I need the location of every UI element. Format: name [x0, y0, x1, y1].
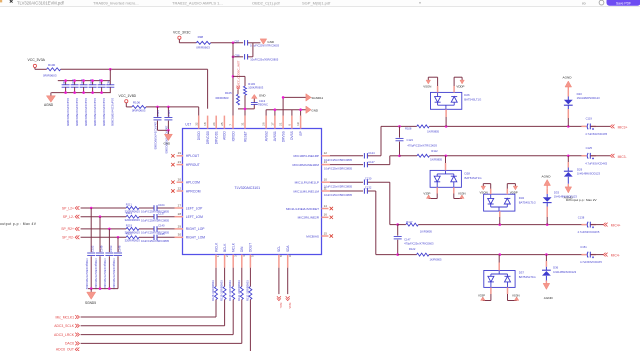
port SP_L2-	[63, 215, 80, 219]
capacitor C123	[396, 126, 438, 155]
capacitor C138	[578, 215, 600, 234]
svg-text:DVDD: DVDD	[197, 131, 201, 141]
svg-text:AGND: AGND	[44, 103, 54, 107]
pin 17 AVSS1 (top)	[271, 116, 278, 142]
svg-text:DRVSS: DRVSS	[281, 131, 285, 142]
designator U17	[185, 122, 191, 126]
svg-text:1N4148W/SOD123: 1N4148W/SOD123	[577, 172, 601, 176]
capacitor C124	[324, 151, 381, 162]
svg-text:19: 19	[296, 122, 300, 126]
svg-text:10uF/C25n/X5R/C0805: 10uF/C25n/X5R/C0805	[75, 98, 79, 126]
transistor D28 BAT54SLT1G	[430, 170, 481, 187]
svg-text:10uF/C25n/X5R/C0805: 10uF/C25n/X5R/C0805	[324, 158, 352, 162]
svg-text:10uF/C25n/X5R/C0805: 10uF/C25n/X5R/C0805	[111, 98, 115, 126]
svg-text:100K/R0603: 100K/R0603	[248, 86, 263, 90]
port Mic_MCLK1	[56, 315, 80, 319]
ground flag GND (C97/C98)	[260, 39, 275, 44]
svg-text:C140: C140	[158, 224, 165, 228]
junction EP	[299, 108, 302, 111]
svg-text:C137: C137	[158, 212, 165, 216]
svg-text:VSON: VSON	[480, 190, 488, 194]
capacitor C102 (AVDD decoupling)	[89, 78, 97, 126]
pin 6 DVSS (top)	[288, 116, 295, 140]
svg-text:VCC_3V3A: VCC_3V3A	[28, 58, 46, 62]
svg-text:AVSS2: AVSS2	[264, 131, 268, 141]
svg-text:C124: C124	[368, 151, 375, 155]
black note output p-p	[0, 222, 37, 226]
junction C147 top	[396, 223, 399, 226]
capacitor C149 (shunt)	[94, 217, 104, 290]
browser tab title 1	[17, 1, 65, 6]
svg-text:TRA632_AUDIO AMPLS 1...: TRA632_AUDIO AMPLS 1...	[172, 1, 223, 6]
wire D37 left pin	[483, 287, 491, 300]
wire C125 to port	[591, 155, 611, 157]
svg-text:R131 33R/R0603: R131 33R/R0603	[237, 280, 241, 301]
svg-text:C119: C119	[586, 117, 593, 121]
svg-text:R113: R113	[126, 211, 133, 215]
svg-text:BAT54SLT1G: BAT54SLT1G	[519, 275, 536, 279]
junction D29 tap	[567, 155, 570, 158]
svg-text:C127: C127	[368, 160, 375, 164]
svg-text:VS3N: VS3N	[458, 191, 466, 195]
op-amp U17 TLV320AIC3101 body	[183, 129, 322, 255]
wire RESET net	[238, 109, 254, 116]
svg-text:29: 29	[178, 224, 182, 228]
svg-text:10uF/C25n/X5R/C0805: 10uF/C25n/X5R/C0805	[324, 193, 352, 197]
junction D28 tap	[445, 155, 448, 158]
junction D36 tap	[545, 253, 548, 256]
svg-text:C104: C104	[158, 203, 165, 207]
wire C127 riser to MIC3- row	[390, 156, 400, 165]
svg-text:4.7uF/63V/CD4X5: 4.7uF/63V/CD4X5	[580, 260, 602, 264]
port MIC4+	[603, 223, 620, 228]
port ADC6_OUT	[56, 348, 79, 351]
capacitor C151	[580, 245, 602, 264]
svg-text:TRA609_Inverted micro...: TRA609_Inverted micro...	[93, 1, 139, 6]
svg-text:26: 26	[262, 122, 266, 126]
svg-text:R120: R120	[126, 232, 133, 236]
wire AVDD bank riser	[109, 69, 111, 80]
svg-text:MIC4+: MIC4+	[611, 224, 621, 228]
svg-text:BAT54SLT1G: BAT54SLT1G	[465, 176, 482, 180]
svg-text:10uF/C25n/X5R/C0805: 10uF/C25n/X5R/C0805	[84, 98, 88, 126]
browser toolbar icon 2	[599, 0, 604, 5]
svg-text:SDA: SDA	[288, 303, 292, 309]
svg-text:D23: D23	[577, 92, 583, 96]
svg-text:C153: C153	[109, 245, 113, 252]
power label VCC_3V3A	[28, 58, 46, 68]
resistor R117	[406, 220, 433, 233]
wire R103 top lead	[233, 76, 245, 86]
svg-text:10uF/C25n/X5R/C0805: 10uF/C25n/X5R/C0805	[250, 58, 278, 62]
wire D37 center pin	[498, 255, 500, 271]
svg-text:R98: R98	[198, 35, 204, 39]
svg-text:R100: R100	[48, 63, 56, 67]
wire SP_R2- row	[81, 236, 175, 238]
svg-text:C147: C147	[404, 237, 411, 241]
wire D37 right pin	[508, 287, 517, 300]
junction RESET	[244, 108, 247, 111]
power flag VSON (D26)	[423, 80, 431, 89]
diode D36	[542, 255, 577, 282]
port SP_L2+	[62, 206, 80, 210]
svg-text:MIC1LM/LINE1LM: MIC1LM/LINE1LM	[294, 189, 320, 193]
svg-text:470pF/C25n/X7R/C0603: 470pF/C25n/X7R/C0603	[404, 242, 434, 246]
svg-text:C123: C123	[407, 138, 414, 142]
capacitor C153 (shunt)	[103, 229, 113, 290]
wire D28 left pin	[429, 187, 438, 198]
svg-text:0R/R0603: 0R/R0603	[196, 46, 210, 50]
svg-text:D26: D26	[464, 93, 470, 97]
wire AVSS/DVSS bus	[266, 110, 306, 116]
svg-text:R122: R122	[409, 247, 416, 251]
svg-text:SP_R2+: SP_R2+	[61, 227, 74, 231]
wire ADC3_SCLK route	[81, 301, 225, 326]
junction C115 tap	[167, 106, 170, 109]
pin 25 AVDD (top)	[220, 116, 227, 140]
power flag VSON (D32)	[480, 186, 488, 194]
junction D26 tap	[445, 125, 448, 128]
svg-text:30: 30	[178, 233, 182, 237]
svg-text:DVSS: DVSS	[290, 131, 294, 140]
pin 13 MIC1RM/LINE1RM (right)	[293, 160, 330, 167]
svg-text:470pF/C25n/X7R/C0603: 470pF/C25n/X7R/C0603	[407, 143, 437, 147]
wire C130 riser to MIC4+ row	[390, 182, 398, 224]
svg-text:AVSS1: AVSS1	[273, 131, 277, 141]
net label VCC_CODEC_INST	[236, 60, 240, 89]
part name TLV320AIC3101	[235, 186, 261, 190]
browser purple button	[607, 0, 640, 6]
wire D32 left pin	[483, 184, 490, 195]
svg-text:BCLK: BCLK	[223, 243, 227, 252]
capacitor C98	[235, 53, 279, 61]
pin 7 IOVDD (top)	[229, 116, 236, 142]
pin 4 DIN (bottom)	[240, 246, 246, 268]
svg-text:MIC2R/LINE2R: MIC2R/LINE2R	[298, 216, 320, 220]
port ADC3_LRCK	[54, 333, 79, 337]
svg-text:D28: D28	[465, 172, 471, 176]
wire R103 bottom lead	[244, 95, 246, 109]
svg-text:AVDD: AVDD	[223, 131, 227, 140]
svg-text:SCL: SCL	[277, 246, 281, 252]
svg-text:IOVDD: IOVDD	[231, 131, 235, 142]
wire MIC3- row	[400, 155, 587, 157]
svg-text:DAC6: DAC6	[65, 342, 74, 346]
resistor R105	[216, 90, 240, 105]
svg-text:1K/R0805: 1K/R0805	[420, 229, 432, 233]
svg-text:V33P: V33P	[478, 293, 485, 297]
wire D26 right pin	[454, 77, 462, 92]
svg-text:1K/R0805: 1K/R0805	[427, 130, 439, 134]
svg-text:D33: D33	[554, 191, 560, 195]
wire SGND5 bus	[88, 287, 118, 290]
wire D32 center pin	[499, 211, 501, 225]
junction VCC_3V3A bank tap	[109, 68, 112, 71]
port MIC3+	[610, 125, 627, 130]
svg-text:GND: GND	[259, 93, 267, 97]
wire D28 center pin	[445, 156, 447, 171]
pin 24 DRVDD1 (top)	[212, 116, 219, 145]
junction SP_L2- filter tap	[99, 215, 102, 218]
junction D37 tap	[498, 253, 501, 256]
resistor R108	[405, 125, 440, 134]
svg-text:MIC1RP/LINE1RP: MIC1RP/LINE1RP	[294, 154, 319, 158]
svg-text:U17: U17	[185, 122, 191, 126]
svg-text:R103: R103	[248, 82, 255, 86]
svg-text:MIC1RM/LINE1RM: MIC1RM/LINE1RM	[293, 163, 320, 167]
resistor R119	[125, 223, 141, 234]
junction SP_R2- filter tap	[117, 236, 120, 239]
svg-text:C130: C130	[365, 177, 372, 181]
wire C97 to GND	[248, 42, 261, 44]
pin 12 MIC1RP/LINE1RP (right)	[294, 151, 330, 158]
power flag VDDP (D26)	[456, 80, 464, 89]
wire C98 to GND riser	[248, 43, 253, 57]
wire C98 branch	[232, 56, 243, 59]
svg-text:R105: R105	[225, 91, 232, 95]
capacitor C101 (AVDD decoupling)	[80, 78, 88, 126]
svg-text:20: 20	[178, 178, 182, 182]
svg-text:C115: C115	[167, 110, 171, 117]
resistor R111	[125, 202, 141, 213]
svg-text:GND: GND	[164, 141, 172, 145]
svg-text:VDDP: VDDP	[456, 85, 464, 89]
svg-text:17: 17	[271, 122, 275, 126]
svg-text:∞: ∞	[582, 1, 586, 7]
svg-text:LEFT_LOP: LEFT_LOP	[186, 206, 203, 210]
svg-text:ADC3_SCLK: ADC3_SCLK	[54, 324, 75, 328]
svg-text:32: 32	[194, 122, 198, 126]
pin 30 RIGHT_LOM (left)	[175, 233, 206, 240]
ground flag AGND (bank)	[44, 93, 55, 107]
svg-text:1N4148W/SOD123: 1N4148W/SOD123	[553, 270, 577, 274]
svg-text:4.7uF/63V/CD4X5: 4.7uF/63V/CD4X5	[585, 161, 607, 165]
svg-text:VDDP: VDDP	[510, 190, 518, 194]
junction R103 tap	[232, 75, 235, 78]
svg-text:HPRCOM: HPRCOM	[186, 189, 201, 193]
svg-text:0.1uF/C25V/X7R/C0603: 0.1uF/C25V/X7R/C0603	[250, 44, 279, 48]
pin 22 HPRCOM (left)	[171, 186, 201, 193]
browser tab title 3	[172, 1, 223, 6]
svg-text:0R/R0603: 0R/R0603	[43, 73, 57, 77]
pin 14 MIC2L/LINE2L/MICDET (right)	[286, 204, 333, 211]
wire C114/C115 commons	[158, 129, 170, 132]
port SDA	[286, 296, 292, 308]
ground flag GND (C114/C115)	[164, 130, 173, 145]
wire DVDD rail	[146, 107, 199, 116]
pin 19 HPLOUT (left)	[171, 151, 199, 158]
junction C123 top	[398, 125, 401, 128]
svg-text:BAT54SLT1G: BAT54SLT1G	[519, 201, 536, 205]
svg-text:18: 18	[203, 122, 207, 126]
svg-text:HPLOUT: HPLOUT	[186, 154, 199, 158]
wire SP_R2+ row	[81, 228, 175, 230]
svg-text:AGND: AGND	[563, 76, 573, 80]
svg-text:R112: R112	[431, 149, 438, 153]
browser tab dot	[419, 2, 421, 4]
junction D33 tap	[546, 223, 549, 226]
svg-text:C98: C98	[235, 53, 240, 57]
svg-text:10uF/C25n/X5R/C0805: 10uF/C25n/X5R/C0805	[141, 231, 169, 235]
svg-text:DOUT: DOUT	[249, 243, 253, 252]
svg-text:SGND11: SGND11	[311, 96, 323, 100]
capacitor C99 (AVDD decoupling)	[62, 79, 70, 126]
wire C124 riser to MIC3+ row	[380, 126, 382, 155]
pin 27 LEFT_LOP (left)	[175, 203, 204, 210]
junction C123 bottom	[398, 155, 401, 158]
port SP_R2+	[61, 227, 79, 231]
wire DRVSS to SGND11	[282, 96, 306, 116]
svg-text:TLV320AIC3101: TLV320AIC3101	[235, 186, 261, 190]
wire SP_L2- row	[81, 216, 175, 218]
svg-text:SP_L2+: SP_L2+	[62, 206, 74, 210]
port MIC4-	[603, 253, 619, 258]
svg-text:22: 22	[178, 186, 182, 190]
svg-text:10uF/C25n/X5R/C0805: 10uF/C25n/X5R/C0805	[66, 98, 70, 126]
port MIC3-	[610, 154, 626, 159]
svg-text:Save PDF: Save PDF	[616, 2, 631, 6]
svg-text:TLV320AIC3101EVM.pdf: TLV320AIC3101EVM.pdf	[17, 1, 65, 6]
svg-text:D36: D36	[553, 266, 559, 270]
wire ADC6_OUT route	[81, 301, 251, 351]
power flag AGND (D36)	[543, 280, 553, 300]
black note diff input	[566, 198, 597, 202]
transistor D32 BAT54SLT1G	[484, 194, 536, 211]
svg-text:4.7uF/63V/CD4X5: 4.7uF/63V/CD4X5	[578, 230, 600, 234]
svg-text:MIC3-: MIC3-	[618, 155, 627, 159]
svg-text:AGND: AGND	[542, 174, 552, 178]
wire D28 right pin	[454, 187, 462, 198]
svg-text:VCC_1V8D: VCC_1V8D	[119, 94, 137, 98]
svg-text:R128 33R/R0603: R128 33R/R0603	[211, 280, 215, 301]
browser back fragment	[0, 0, 2, 2]
svg-text:320R/R0603: 320R/R0603	[125, 239, 141, 243]
svg-text:OBD2_C(1).pdf: OBD2_C(1).pdf	[252, 1, 280, 6]
wire bank bottom bus	[51, 92, 110, 94]
resistor R122	[409, 247, 442, 262]
power flag AGND (D29)	[564, 184, 574, 200]
svg-text:C96: C96	[108, 80, 111, 85]
svg-text:RIGHT_LOM: RIGHT_LOM	[186, 236, 205, 240]
junction VCC_CODEC_INST	[232, 42, 235, 45]
port SCL	[277, 296, 283, 308]
wire C119 to port	[591, 125, 611, 127]
svg-text:DRVDD0: DRVDD0	[206, 131, 210, 144]
browser close icon	[10, 0, 13, 3]
wire MIC3+ row	[429, 125, 586, 127]
svg-text:MIC4-: MIC4-	[611, 254, 620, 258]
ground flag SGND5	[85, 289, 96, 306]
svg-text:HPROUT: HPROUT	[186, 163, 200, 167]
resistor R100	[43, 63, 61, 77]
pin 16 MIC2R/LINE2R (right)	[298, 213, 333, 220]
svg-text:C114: C114	[156, 110, 160, 117]
svg-text:BAT54SLT1G: BAT54SLT1G	[464, 97, 481, 101]
capacitor C103 (AVDD decoupling)	[98, 78, 106, 126]
pin 15 MICBIAS (right)	[306, 231, 333, 238]
svg-text:D37: D37	[519, 271, 525, 275]
svg-text:0R/R0603: 0R/R0603	[132, 108, 146, 112]
junction C147 bottom	[396, 253, 399, 256]
svg-text:MCLK: MCLK	[232, 242, 236, 252]
power flag VS3N (D37)	[512, 293, 520, 300]
svg-text:D29: D29	[577, 167, 583, 171]
svg-text:RIGHT_LOP: RIGHT_LOP	[186, 227, 205, 231]
svg-text:320R/R0603: 320R/R0603	[125, 218, 141, 222]
capacitor C100 (AVDD decoupling)	[71, 78, 79, 126]
svg-text:4700pF/C50V/X7R/C0603: 4700pF/C50V/X7R/C0603	[103, 258, 107, 290]
svg-text:1N4148W/SOD123: 1N4148W/SOD123	[577, 96, 601, 100]
svg-text:MICBIAS: MICBIAS	[306, 234, 319, 238]
wire D26 center pin	[445, 109, 447, 126]
svg-text:GND: GND	[311, 108, 319, 112]
resistor R130	[228, 268, 235, 301]
capacitor C140	[141, 224, 169, 235]
svg-text:C97: C97	[234, 39, 239, 43]
svg-text:WCLK: WCLK	[214, 242, 218, 252]
svg-text:10uF/C25n/X5R/C0805: 10uF/C25n/X5R/C0805	[141, 239, 169, 243]
power flag AGND (D23)	[563, 76, 573, 90]
svg-text:0R/R0603: 0R/R0603	[216, 96, 229, 100]
svg-text:4700pF/C50V/X7R/C0603: 4700pF/C50V/X7R/C0603	[112, 258, 116, 290]
svg-text:MIC3+: MIC3+	[618, 126, 628, 130]
svg-text:4700pF/C50V/X7R/C0603: 4700pF/C50V/X7R/C0603	[85, 258, 89, 290]
pin 9 SDA (bottom)	[286, 245, 292, 268]
svg-text:1K/R0805: 1K/R0805	[430, 258, 442, 262]
svg-text:12: 12	[324, 151, 328, 155]
capacitor C145	[141, 232, 169, 243]
transistor D37 BAT54SLT1G	[484, 271, 536, 288]
svg-text:C148: C148	[118, 245, 122, 252]
resistor R132	[245, 268, 252, 301]
svg-text:SDA: SDA	[286, 245, 290, 252]
pin 11 MIC1LM/LINE1LM (right)	[294, 186, 330, 193]
resistor R103	[244, 82, 264, 96]
svg-text:10uF/C25n/X5R/C0805: 10uF/C25n/X5R/C0805	[324, 184, 352, 188]
svg-text:10uF/C25n/X5R/C0805: 10uF/C25n/X5R/C0805	[141, 218, 169, 222]
capacitor C147	[394, 225, 434, 255]
svg-text:1N4148W/SOD123: 1N4148W/SOD123	[554, 195, 578, 199]
svg-text:10uF/C25n/X5R/C0805: 10uF/C25n/X5R/C0805	[141, 210, 169, 214]
wire DAC6 route	[81, 301, 242, 343]
wire VCC_3V3A rail	[61, 68, 208, 70]
svg-text:ADC3_LRCK: ADC3_LRCK	[54, 333, 75, 337]
port DAC6	[65, 342, 79, 346]
wire ADC3_LRCK route	[81, 301, 234, 335]
capacitor C127	[324, 160, 390, 171]
port SP_R2-	[62, 235, 79, 239]
ground flag GND (C113)	[252, 93, 267, 98]
svg-text:1K/R0805: 1K/R0805	[430, 157, 442, 161]
resistor R131	[237, 268, 244, 301]
capacitor C132	[324, 186, 376, 198]
capacitor C130	[324, 177, 390, 189]
port ADC3_SCLK	[54, 324, 79, 328]
pin 20 HPLCOM (left)	[171, 178, 200, 185]
svg-text:19: 19	[178, 151, 182, 155]
svg-text:SP_R2-: SP_R2-	[62, 236, 74, 240]
port GND	[306, 106, 319, 113]
svg-text:10uF/C25n/X5R/C0805: 10uF/C25n/X5R/C0805	[154, 122, 158, 150]
pin 5 DOUT (bottom)	[249, 243, 255, 268]
pin 26 AVSS2 (top)	[262, 116, 269, 142]
svg-text:15: 15	[324, 231, 328, 235]
pin 29 RIGHT_LOP (left)	[175, 224, 206, 231]
svg-text:C113: C113	[259, 99, 266, 103]
resistor R106	[132, 101, 146, 113]
svg-text:VS3N: VS3N	[512, 293, 520, 297]
svg-text:DIN: DIN	[240, 246, 244, 252]
